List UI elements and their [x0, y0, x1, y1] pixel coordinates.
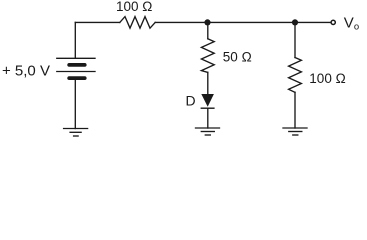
- wire node A down to R2: [207, 22, 209, 38]
- ground symbol (diode branch): [196, 128, 220, 135]
- resistor R3 100 ohm vertical zigzag: [289, 58, 302, 93]
- resistor R1 100 ohm horizontal zigzag: [120, 17, 155, 29]
- node A junction dot: [204, 19, 210, 25]
- svg-text:100 Ω: 100 Ω: [116, 0, 152, 14]
- wire node B to output terminal: [295, 21, 331, 23]
- wire R1 to node A: [155, 21, 207, 23]
- wire top rail left segment to R1: [75, 21, 120, 23]
- output terminal Vo open circle: [331, 20, 335, 24]
- ground symbol (battery): [64, 129, 88, 137]
- svg-text:50 Ω: 50 Ω: [223, 49, 252, 64]
- battery V1 plates: [57, 58, 95, 78]
- svg-text:Vo: Vo: [344, 14, 359, 32]
- wire battery negative to ground: [74, 78, 76, 128]
- resistor R2 50 ohm vertical zigzag: [201, 39, 214, 73]
- wire battery positive up to top-left corner: [74, 22, 76, 58]
- diode D body (filled triangle): [201, 94, 214, 107]
- svg-text:D: D: [186, 93, 196, 109]
- node B junction dot: [292, 19, 298, 25]
- svg-text:+ 5,0 V: + 5,0 V: [2, 62, 50, 79]
- wire node A to node B: [208, 21, 296, 23]
- diode D cathode bar: [201, 107, 214, 109]
- svg-text:100 Ω: 100 Ω: [309, 71, 345, 86]
- wire diode cathode to ground: [207, 108, 209, 128]
- wire R2 to diode D anode: [207, 72, 209, 94]
- wire R3 to ground: [294, 92, 296, 128]
- wire node B down to R3: [294, 22, 296, 57]
- ground symbol (right branch): [283, 128, 307, 135]
